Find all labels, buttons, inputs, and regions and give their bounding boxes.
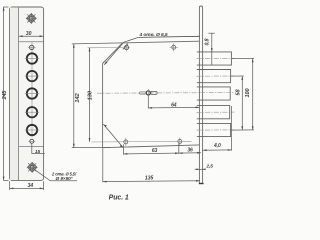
- case top line: [19, 41, 44, 43]
- dimension 30: [19, 35, 44, 37]
- svg-text:36: 36: [187, 148, 193, 154]
- dimension 64: [147, 96, 149, 109]
- svg-text:Рис. 1: Рис. 1: [109, 195, 129, 202]
- svg-text:64: 64: [171, 102, 177, 108]
- screw hole bottom-right: [178, 139, 182, 143]
- dimension 245: [3, 7, 8, 180]
- svg-text:4,0: 4,0: [213, 143, 221, 149]
- bolt 5: [197, 123, 231, 136]
- svg-text:15: 15: [35, 149, 41, 155]
- dimension 40 bolt throw: [230, 106, 232, 151]
- dimension 58 right: [231, 75, 244, 77]
- faceplate bend line: [18, 7, 20, 180]
- dimension 100 right: [231, 57, 254, 59]
- dimension 135: [103, 148, 200, 182]
- hole cross lines: [25, 59, 39, 131]
- countersunk hole symbol top: [26, 13, 37, 24]
- svg-text:142: 142: [75, 92, 81, 102]
- bottom holes centerline: [92, 140, 192, 143]
- dimension 34: [10, 181, 44, 190]
- dimension 142 left: [72, 43, 123, 148]
- svg-text:34: 34: [28, 183, 34, 189]
- body outline: [103, 41, 200, 148]
- vertical centerline: [31, 42, 33, 138]
- leader to hole note: [34, 169, 77, 181]
- bolt 1: [197, 52, 232, 65]
- svg-text:2,5: 2,5: [205, 163, 213, 169]
- svg-text:30: 30: [26, 31, 32, 37]
- screw hole bottom-left: [124, 140, 128, 144]
- svg-text:135: 135: [145, 176, 154, 182]
- countersunk hole symbol bottom: [27, 162, 38, 173]
- svg-text:63: 63: [152, 148, 158, 154]
- small hole top: [30, 45, 34, 49]
- bolt centerlines: [97, 58, 235, 130]
- dimension 2,5: [195, 168, 205, 170]
- faceplate strip side view: [199, 6, 202, 183]
- svg-text:58: 58: [236, 89, 242, 96]
- dimensions 63 and 36: [124, 144, 202, 155]
- bolt 3: [197, 87, 230, 100]
- bolt hole rings: [27, 53, 37, 135]
- screw hole top-left: [125, 46, 129, 50]
- dimension 15: [31, 144, 33, 154]
- svg-text:245: 245: [2, 91, 8, 101]
- svg-text:130: 130: [88, 90, 94, 100]
- dimension 0,8: [211, 33, 213, 65]
- bolt 2: [197, 70, 231, 83]
- small hole bottom: [30, 139, 34, 143]
- case bottom line: [19, 146, 44, 148]
- svg-text:0,8: 0,8: [204, 38, 210, 45]
- svg-text:100: 100: [245, 88, 251, 98]
- bolt 4: [197, 106, 230, 119]
- dimension 130 left: [89, 48, 91, 142]
- top holes centerline: [88, 47, 131, 49]
- keyhole: [139, 91, 157, 95]
- screw hole top-right: [172, 45, 176, 49]
- diagonal double arrow: [103, 124, 123, 147]
- faceplate outline: [10, 7, 44, 180]
- svg-text:Ø 9×90°: Ø 9×90°: [56, 176, 73, 181]
